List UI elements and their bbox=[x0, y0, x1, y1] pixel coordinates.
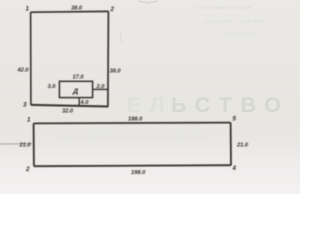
svg-text:21.0: 21.0 bbox=[19, 143, 32, 149]
svg-text:21.0: 21.0 bbox=[236, 143, 249, 149]
svg-text:198.0: 198.0 bbox=[128, 117, 143, 123]
svg-text:ЬСТВО: ЬСТВО bbox=[171, 93, 290, 117]
svg-text:5: 5 bbox=[233, 116, 237, 123]
house rectangle (building A) bbox=[59, 81, 92, 97]
faint smudge at top edge bbox=[138, 1, 158, 3]
svg-text:Д: Д bbox=[72, 86, 78, 95]
svg-text:38.0: 38.0 bbox=[71, 6, 83, 12]
svg-text:2.0: 2.0 bbox=[96, 84, 106, 90]
svg-text:3: 3 bbox=[23, 102, 27, 109]
svg-text:ЕЛ: ЕЛ bbox=[127, 93, 174, 117]
plot 1 outline: left edge (node 1 to node 3) bbox=[30, 12, 32, 105]
plot 2 outline: right edge (node 5 to node 4) bbox=[230, 123, 232, 166]
svg-text:3.0: 3.0 bbox=[48, 84, 57, 90]
wire: house bottom to plot1 bottom edge bbox=[78, 98, 80, 106]
svg-text:наследуемое: наследуемое bbox=[222, 31, 257, 37]
svg-text:владение землей: владение землей bbox=[204, 18, 265, 25]
svg-text:32.0: 32.0 bbox=[62, 109, 74, 115]
svg-text:198.0: 198.0 bbox=[131, 170, 146, 176]
svg-text:42.0: 42.0 bbox=[17, 68, 30, 74]
svg-text:4: 4 bbox=[232, 165, 237, 172]
svg-text:для ведения личного хозяйства: для ведения личного хозяйства bbox=[62, 131, 207, 140]
svg-text:17.0: 17.0 bbox=[73, 75, 85, 81]
plot 1 outline: bottom edge (node 3 to node 4) bbox=[31, 105, 108, 107]
svg-text:2: 2 bbox=[25, 166, 30, 173]
plot 1 outline: right edge (node 2 to node 4) bbox=[107, 11, 110, 106]
faint margin line at left bbox=[0, 143, 33, 145]
svg-text:38.0: 38.0 bbox=[110, 69, 122, 75]
wire: house right side to plot1 right edge bbox=[93, 88, 108, 90]
plot 2 outline: bottom edge (node 2 to node 4) bbox=[34, 165, 231, 166]
plot 2 outline: top edge (node 1 to node 5) bbox=[34, 122, 231, 125]
faint speck near right of plot 1 bbox=[120, 30, 122, 44]
plot 2 outline: left edge (node 1 to node 2) bbox=[33, 123, 35, 166]
plot 1 outline: top edge (node 1 to node 2) bbox=[31, 10, 109, 13]
svg-text:на пожизненное: на пожизненное bbox=[196, 5, 253, 11]
svg-text:1: 1 bbox=[26, 6, 30, 13]
svg-text:2: 2 bbox=[110, 6, 115, 13]
svg-text:1: 1 bbox=[27, 117, 31, 124]
svg-text:4.0: 4.0 bbox=[80, 100, 90, 106]
